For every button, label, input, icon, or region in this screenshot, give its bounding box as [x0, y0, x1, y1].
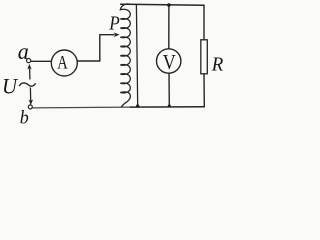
svg-text:U: U	[2, 73, 19, 98]
svg-text:V: V	[163, 50, 176, 74]
svg-text:a: a	[18, 39, 29, 64]
svg-text:A: A	[57, 52, 68, 73]
svg-text:P: P	[108, 13, 119, 35]
svg-text:R: R	[211, 53, 223, 75]
svg-text:b: b	[20, 108, 29, 129]
